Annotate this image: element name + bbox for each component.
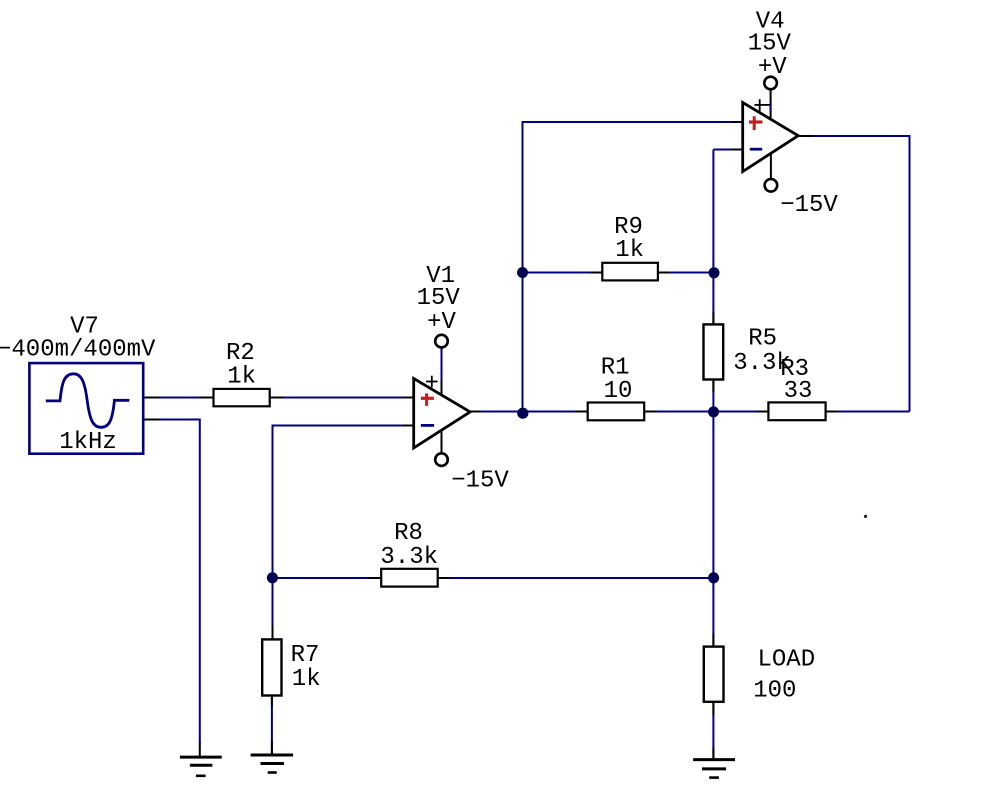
junction R9 left (517, 267, 528, 278)
wire junction down to R7 top pin (272, 578, 274, 639)
junction R8 right / LOAD top (708, 572, 719, 583)
ground G3 (below LOAD) (693, 760, 735, 778)
resistor LOAD (704, 647, 724, 702)
wire left vertical from V1 output junction up to V4 noninverting input (523, 122, 744, 413)
wire V1 inverting input to feedback node (down to R8/R7 junction) (273, 426, 415, 579)
svg-text:1k: 1k (292, 666, 321, 693)
svg-text:+V: +V (758, 54, 787, 81)
stray dot artifact (864, 515, 867, 518)
svg-text:+V: +V (427, 309, 456, 336)
resistor R2 (214, 389, 270, 406)
ground G1 (source return) (180, 757, 222, 776)
svg-text:1k: 1k (227, 363, 256, 390)
svg-text:3.3k: 3.3k (380, 544, 438, 571)
wire R9 row (y=271.8) (523, 272, 714, 274)
svg-text:1k: 1k (615, 237, 644, 264)
svg-text:R8: R8 (394, 520, 423, 547)
wire V4 output right then down to R3 row (798, 136, 909, 412)
op-amp V4 (743, 77, 799, 192)
svg-text:33: 33 (784, 378, 813, 405)
svg-text:LOAD: LOAD (758, 646, 816, 673)
resistor R7 (262, 639, 281, 695)
ground G2 (below R7) (251, 755, 294, 773)
svg-text:15V: 15V (417, 285, 461, 312)
svg-text:100: 100 (753, 678, 796, 705)
svg-text:R7: R7 (291, 642, 320, 669)
wire V1 output row through R1 to mid node (y=412.5) (470, 411, 713, 413)
resistor R9 (602, 263, 658, 281)
wire R7 bottom pin down to ground G2 (271, 696, 273, 756)
junction R1/R5/R3 node (708, 406, 719, 417)
wire R3 row (y=412.5) (713, 411, 909, 413)
junction R9 right (709, 267, 720, 278)
svg-text:10: 10 (604, 378, 633, 405)
wire mid vertical x=713 from V4 inverting input down through R5, node, R8 junction, LOAD to ground G3 (712, 150, 714, 761)
junction R8 left / R7 top (267, 572, 278, 583)
svg-text:−15V: −15V (780, 192, 838, 219)
wire V4 inverting input stub (713, 149, 743, 151)
wire V7 upper output to R2 to V1 noninverting input (net A) (143, 397, 414, 399)
svg-text:−15V: −15V (451, 467, 509, 494)
source V7 sine generator box (29, 363, 143, 454)
resistor R1 (588, 403, 645, 421)
resistor R8 (381, 569, 438, 587)
svg-text:R5: R5 (748, 325, 777, 352)
op-amp V1 (414, 335, 470, 466)
wire R8 row (y=578) (273, 577, 714, 579)
resistor R3 (768, 402, 825, 420)
junction V1 output / left vertical (517, 408, 528, 419)
resistor R5 (704, 324, 724, 379)
svg-text:−400m/400mV: −400m/400mV (0, 337, 156, 364)
wire V7 lower output down to ground G1 (143, 420, 200, 758)
svg-text:1kHz: 1kHz (59, 429, 117, 456)
